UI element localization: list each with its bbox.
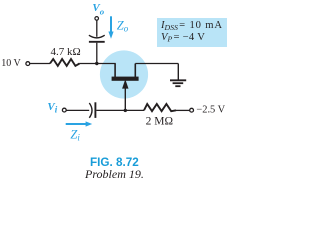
terminal -2.5 V — [190, 108, 194, 112]
capacitor C2 (output) — [89, 35, 105, 38]
wire resistor to drain lead — [80, 63, 116, 65]
svg-text:2 MΩ: 2 MΩ — [146, 116, 173, 128]
svg-text:−2.5 V: −2.5 V — [196, 105, 225, 116]
node gate junction — [124, 109, 127, 112]
transistor highlight circle — [100, 50, 148, 98]
source lead — [134, 64, 136, 78]
drain lead — [114, 64, 116, 78]
capacitor C1 (input) — [89, 103, 92, 118]
channel bar — [112, 77, 139, 81]
arrow Zi — [66, 123, 87, 125]
svg-text:10 V: 10 V — [1, 58, 21, 69]
svg-text:4.7 kΩ: 4.7 kΩ — [51, 46, 81, 58]
wire source to ground — [135, 63, 178, 65]
JFET Q1 — [112, 64, 139, 111]
wire Vo to capacitor — [96, 20, 98, 37]
terminal Vo — [95, 17, 99, 21]
node drain junction — [95, 62, 98, 65]
terminal Vi — [62, 108, 66, 112]
resistor R1 4.7 kOhm — [50, 59, 80, 66]
ground — [170, 64, 186, 87]
arrow Zo — [110, 16, 112, 32]
resistor R2 2 MOhm — [144, 104, 176, 111]
parameter box — [157, 18, 227, 47]
gate arrow — [122, 79, 128, 88]
wire Vi to capacitor — [66, 109, 89, 111]
wire capacitor to gate node — [96, 109, 144, 111]
wire resistor to -2.5V terminal — [176, 109, 190, 111]
svg-text:Problem 19.: Problem 19. — [84, 167, 144, 181]
wire 10V to resistor — [30, 63, 50, 65]
wire capacitor to drain node — [96, 43, 98, 64]
